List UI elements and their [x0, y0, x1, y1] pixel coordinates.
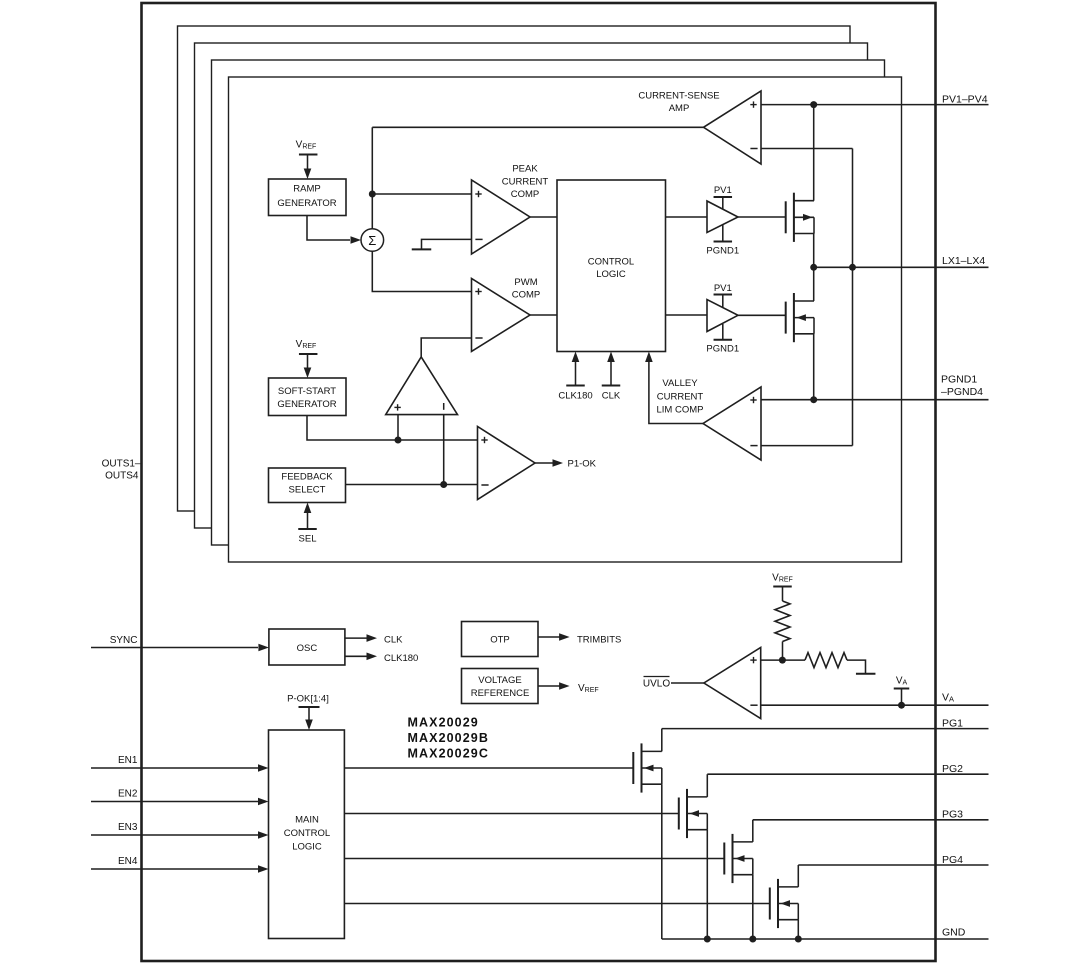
svg-text:TRIMBITS: TRIMBITS: [577, 635, 621, 646]
svg-text:MAIN: MAIN: [295, 815, 319, 826]
summer node (sigma): [361, 229, 384, 252]
PGND1 rail of high-side driver: [714, 241, 733, 243]
svg-text:–PGND4: –PGND4: [941, 386, 983, 398]
svg-text:EN4: EN4: [118, 856, 138, 867]
wire control logic to high-side driver: [666, 216, 708, 218]
svg-text:LX1–LX4: LX1–LX4: [942, 255, 985, 267]
wire PG1 source to GND: [661, 784, 663, 939]
channel page 4 frame (back): [178, 26, 851, 511]
wire PG2 source to GND: [706, 830, 708, 939]
svg-text:LOGIC: LOGIC: [292, 842, 322, 853]
wire PV node to high-side drain: [813, 105, 815, 201]
svg-text:LOGIC: LOGIC: [596, 269, 626, 280]
wire PV1-PV4 net: [761, 104, 989, 106]
wire UVLO label to comparator: [671, 682, 704, 684]
svg-text:PGND1: PGND1: [941, 374, 977, 386]
svg-text:EN2: EN2: [118, 789, 138, 800]
node feedback junction: [440, 481, 447, 488]
wire PG1 drain to pin line: [661, 729, 663, 752]
svg-text:RAMP: RAMP: [293, 184, 320, 195]
CLK180 input to control logic: [566, 385, 585, 387]
main control logic block: [269, 730, 345, 939]
chip outline MAX20029: [142, 3, 936, 961]
svg-text:CLK180: CLK180: [558, 391, 592, 402]
transistor PG3 open-drain MOSFET: [723, 843, 725, 875]
wire summer to pwm comp noninverting input: [372, 251, 471, 291]
wire PG3 net: [753, 819, 989, 821]
wire main control logic to PG1 MOSFET gate: [344, 767, 633, 769]
svg-text:P-OK[1:4]: P-OK[1:4]: [287, 694, 329, 705]
comparator UVLO (points left): [704, 648, 761, 719]
svg-text:GENERATOR: GENERATOR: [277, 198, 336, 209]
svg-text:PG2: PG2: [942, 763, 963, 775]
resistor R2 offset: [805, 653, 847, 668]
svg-text:VALLEY: VALLEY: [662, 378, 698, 389]
soft-start generator block: [269, 378, 347, 416]
wire OSC CLK output: [345, 637, 367, 639]
svg-text:CONTROL: CONTROL: [588, 257, 634, 268]
wire PG4 source to GND: [797, 920, 799, 939]
wire voltage reference to VREF: [538, 685, 560, 687]
svg-text:MAX20029B: MAX20029B: [408, 731, 489, 745]
node PG4 source GND junction: [795, 936, 802, 943]
svg-text:SELECT: SELECT: [289, 484, 326, 495]
voltage reference block: [462, 669, 539, 704]
channel page 1 frame (front): [229, 77, 902, 562]
svg-text:CURRENT-SENSE: CURRENT-SENSE: [638, 91, 719, 102]
wire main control logic to PG3 MOSFET gate: [344, 858, 724, 860]
svg-text:PG1: PG1: [942, 717, 963, 729]
PGND1 rail of low-side driver: [714, 339, 733, 341]
node PG2 source GND junction: [704, 936, 711, 943]
svg-text:OUTS1–: OUTS1–: [102, 459, 141, 470]
OTP block: [462, 622, 539, 657]
svg-text:OSC: OSC: [297, 643, 318, 654]
control logic block: [557, 180, 666, 352]
wire power-ok output P1-OK: [535, 462, 553, 464]
VA internal rail: [894, 688, 910, 690]
svg-text:EN1: EN1: [118, 755, 138, 766]
node PV1 supply: [810, 101, 817, 108]
node PGND: [810, 396, 817, 403]
wire main control logic to PG2 MOSFET gate: [344, 813, 678, 815]
wire OTP to TRIMBITS: [538, 636, 560, 638]
wire PG2 drain to pin line: [706, 774, 708, 797]
offset return symbol: [847, 660, 866, 674]
node A summer to peak comparator: [369, 191, 376, 198]
wire error amp inverting stub: [443, 415, 445, 485]
wire peak comp output to control logic: [530, 216, 557, 218]
channel page 2 frame: [212, 60, 885, 545]
svg-text:LIM COMP: LIM COMP: [657, 405, 704, 416]
svg-text:MAX20029: MAX20029: [408, 716, 479, 730]
svg-text:P1-OK: P1-OK: [568, 459, 597, 470]
wire valley comp output to control logic: [649, 361, 703, 424]
comparator valley current lim comp (points left): [703, 387, 761, 460]
svg-text:EN3: EN3: [118, 822, 138, 833]
transistor low-side MOSFET: [785, 302, 787, 334]
wire high-side source to LX: [813, 234, 815, 268]
SEL input: [298, 528, 317, 530]
transistor PG2 open-drain MOSFET: [678, 798, 680, 830]
svg-text:PGND1: PGND1: [706, 344, 739, 355]
svg-text:COMP: COMP: [512, 289, 541, 300]
svg-text:CURRENT: CURRENT: [502, 177, 549, 188]
wire ramp generator to summer: [307, 216, 350, 241]
svg-text:PWM: PWM: [514, 277, 537, 288]
wire high-side driver to gate: [738, 216, 786, 218]
svg-text:CLK: CLK: [602, 391, 621, 402]
svg-text:CURRENT: CURRENT: [657, 391, 704, 402]
wire control logic to low-side driver: [666, 314, 708, 316]
oscillator block OSC: [269, 629, 345, 665]
svg-text:COMP: COMP: [511, 189, 540, 200]
node LX sense: [849, 264, 856, 271]
wire PGND1-PGND4 net: [761, 399, 989, 401]
svg-text:CLK180: CLK180: [384, 653, 418, 664]
node UVLO noninverting: [779, 657, 786, 664]
svg-text:PV1: PV1: [714, 185, 732, 196]
PV1 rail of low-side driver: [714, 294, 733, 296]
slope offset symbol at peak comp inverting input: [422, 239, 472, 249]
wire LX1-LX4 net: [814, 266, 989, 268]
svg-text:OTP: OTP: [490, 635, 510, 646]
transistor high-side MOSFET: [785, 201, 787, 233]
error amplifier (transconductance amp, points up): [386, 357, 458, 415]
PV1 rail of high-side driver: [714, 196, 733, 198]
wire error amp output to pwm comp inverting input: [421, 338, 471, 357]
buffer high-side gate driver: [707, 201, 738, 233]
svg-text:PG4: PG4: [942, 854, 963, 866]
wire main control logic to PG4 MOSFET gate: [344, 903, 769, 905]
svg-text:Σ: Σ: [368, 233, 376, 248]
wire OSC CLK180 output: [345, 655, 367, 657]
wire PG4 net: [798, 864, 988, 866]
comparator peak current comp: [472, 180, 531, 254]
wire current-sense amp inverting to LX sense: [761, 148, 853, 150]
comparator pwm comp: [472, 279, 531, 352]
svg-text:SEL: SEL: [299, 534, 317, 545]
node PG3 source GND junction: [749, 936, 756, 943]
transistor PG1 open-drain MOSFET: [632, 752, 634, 784]
wire summer output up to current-sense amp output: [371, 127, 373, 228]
wire PG3 source to GND: [752, 875, 754, 939]
node LX: [810, 264, 817, 271]
svg-text:SOFT-START: SOFT-START: [278, 386, 336, 397]
svg-text:GND: GND: [942, 927, 966, 939]
wire LX to low-side drain: [813, 267, 815, 301]
svg-text:PEAK: PEAK: [512, 164, 538, 175]
svg-text:PG3: PG3: [942, 809, 963, 821]
node VA: [898, 702, 905, 709]
CLK input to control logic: [602, 385, 621, 387]
svg-text:MAX20029C: MAX20029C: [408, 747, 489, 761]
wire pwm comp output to control logic: [530, 314, 557, 316]
buffer low-side gate driver: [707, 300, 738, 332]
wire summer to peak current comp noninverting input: [372, 193, 471, 195]
channel page 3 frame: [195, 43, 868, 528]
svg-text:CLK: CLK: [384, 635, 403, 646]
wire low-side source to PGND: [813, 334, 815, 400]
svg-text:VOLTAGE: VOLTAGE: [478, 675, 521, 686]
wire PG3 drain to pin line: [752, 820, 754, 842]
svg-text:OUTS4: OUTS4: [105, 471, 139, 482]
transistor PG4 open-drain MOSFET: [769, 888, 771, 920]
svg-text:CONTROL: CONTROL: [284, 828, 330, 839]
wire PG1 net: [662, 728, 989, 730]
svg-text:GENERATOR: GENERATOR: [277, 399, 336, 410]
node soft-start junction: [395, 437, 402, 444]
svg-text:AMP: AMP: [669, 103, 690, 114]
wire valley comp inverting input: [761, 445, 853, 447]
svg-text:PV1–PV4: PV1–PV4: [942, 94, 988, 106]
svg-text:FEEDBACK: FEEDBACK: [281, 472, 333, 483]
wire feedback select to power-ok comp inverting input: [346, 484, 478, 486]
svg-text:REFERENCE: REFERENCE: [471, 688, 530, 699]
wire soft-start to error amp and power-ok comp noninverting input: [307, 416, 478, 441]
svg-text:SYNC: SYNC: [110, 635, 138, 646]
wire low-side driver to gate: [738, 314, 786, 316]
wire PG4 drain to pin line: [797, 865, 799, 887]
feedback select block: [269, 468, 346, 503]
wire UVLO noninverting input to divider: [761, 659, 805, 661]
comparator power-ok: [478, 427, 536, 500]
resistor R1 VREF divider: [782, 587, 784, 602]
svg-text:PGND1: PGND1: [706, 246, 739, 257]
wire error amp noninverting stub: [397, 415, 399, 440]
wire LX sense vertical: [852, 149, 854, 446]
wire PG2 net: [707, 773, 988, 775]
wire GND net: [662, 938, 989, 940]
svg-text:UVLO: UVLO: [643, 679, 670, 690]
svg-text:PV1: PV1: [714, 283, 732, 294]
wire VA to UVLO inverting input: [761, 704, 989, 706]
op-amp current-sense amp (points left): [704, 91, 762, 164]
ramp generator block: [269, 179, 347, 216]
